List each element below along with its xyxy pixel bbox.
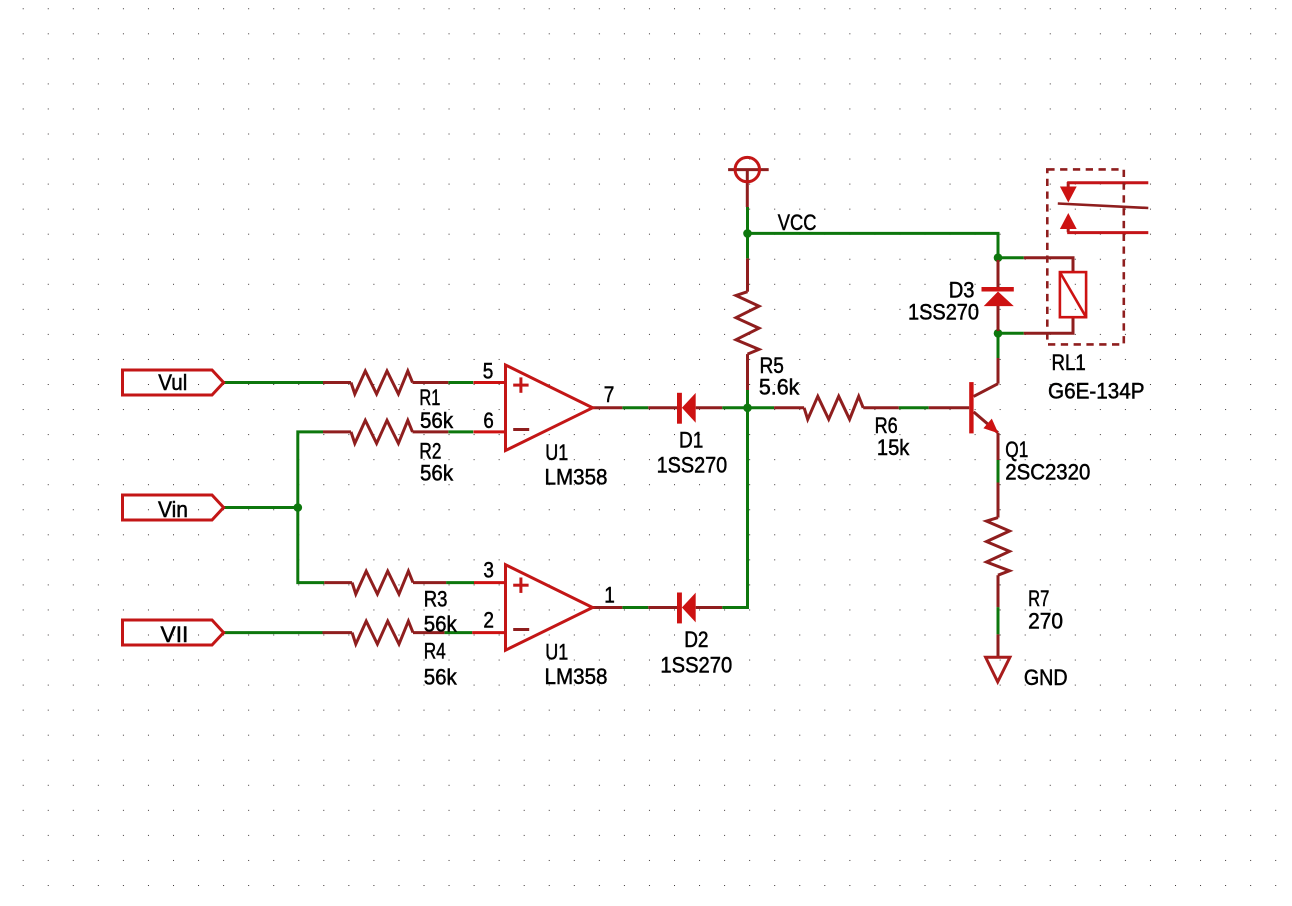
svg-text:56k: 56k bbox=[420, 408, 454, 433]
svg-text:56k: 56k bbox=[420, 461, 454, 486]
svg-text:1SS270: 1SS270 bbox=[908, 300, 979, 325]
svg-text:56k: 56k bbox=[424, 611, 458, 636]
svg-text:GND: GND bbox=[1024, 665, 1068, 690]
svg-text:VCC: VCC bbox=[778, 210, 817, 235]
svg-text:7: 7 bbox=[604, 382, 615, 407]
svg-text:Vul: Vul bbox=[158, 370, 187, 395]
svg-text:2SC2320: 2SC2320 bbox=[1005, 460, 1090, 485]
svg-text:D1: D1 bbox=[679, 428, 703, 453]
svg-text:56k: 56k bbox=[424, 665, 458, 690]
svg-text:G6E-134P: G6E-134P bbox=[1048, 379, 1145, 404]
svg-text:R4: R4 bbox=[424, 639, 446, 664]
svg-text:U1: U1 bbox=[545, 440, 568, 465]
svg-text:1: 1 bbox=[604, 583, 615, 608]
svg-text:RL1: RL1 bbox=[1052, 350, 1086, 375]
svg-text:LM358: LM358 bbox=[545, 465, 608, 490]
svg-text:3: 3 bbox=[483, 558, 494, 583]
svg-text:VII: VII bbox=[161, 622, 189, 647]
svg-text:LM358: LM358 bbox=[545, 664, 608, 689]
svg-text:R1: R1 bbox=[419, 385, 440, 410]
svg-text:R7: R7 bbox=[1028, 586, 1049, 611]
svg-text:15k: 15k bbox=[877, 435, 910, 460]
svg-text:Q1: Q1 bbox=[1005, 437, 1028, 462]
svg-text:1SS270: 1SS270 bbox=[660, 652, 732, 677]
svg-text:5.6k: 5.6k bbox=[759, 375, 800, 400]
svg-text:U1: U1 bbox=[545, 640, 568, 665]
svg-text:270: 270 bbox=[1028, 609, 1063, 634]
svg-text:1SS270: 1SS270 bbox=[657, 452, 728, 477]
svg-text:R3: R3 bbox=[424, 587, 448, 612]
svg-text:5: 5 bbox=[483, 358, 494, 383]
svg-text:Vin: Vin bbox=[158, 497, 188, 522]
svg-text:D2: D2 bbox=[684, 627, 708, 652]
svg-text:6: 6 bbox=[483, 408, 493, 433]
svg-text:2: 2 bbox=[483, 608, 494, 633]
